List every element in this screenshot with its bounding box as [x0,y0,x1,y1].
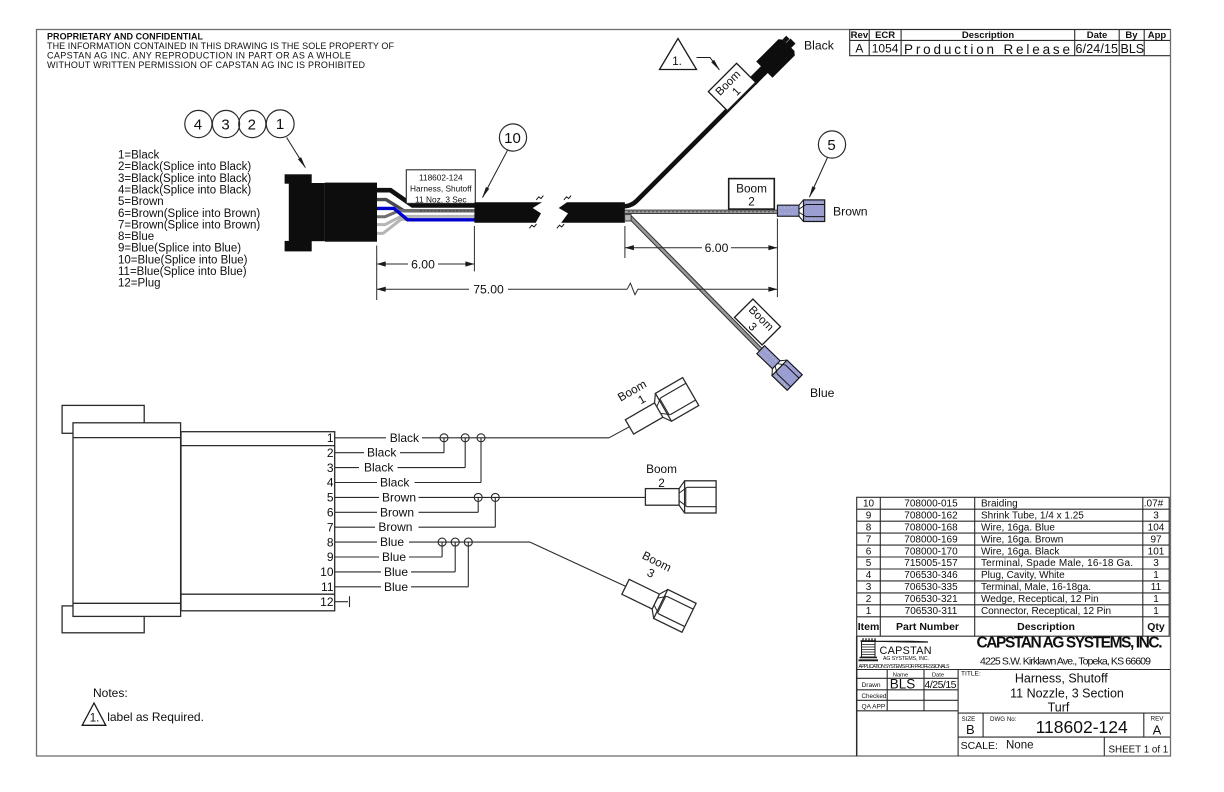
svg-text:By: By [1125,30,1138,41]
svg-text:Rev: Rev [851,30,869,41]
svg-text:1: 1 [276,116,284,133]
svg-text:8: 8 [866,522,872,533]
svg-text:ECR: ECR [875,30,895,41]
svg-text:6.00: 6.00 [411,257,435,271]
svg-text:10: 10 [320,565,334,579]
svg-text:706530-311: 706530-311 [905,606,958,617]
svg-text:6: 6 [866,546,872,557]
svg-text:Brown: Brown [382,490,416,504]
svg-text:Blue: Blue [384,580,408,594]
svg-text:10=Blue(Splice into Blue): 10=Blue(Splice into Blue) [118,254,248,266]
svg-text:1: 1 [866,606,872,617]
svg-text:11=Blue(Splice into Blue): 11=Blue(Splice into Blue) [118,266,247,278]
svg-text:Description: Description [1017,621,1075,633]
svg-text:label as Required.: label as Required. [107,710,204,724]
svg-text:104: 104 [1148,522,1165,533]
svg-text:Qty: Qty [1147,621,1165,633]
svg-text:Blue: Blue [380,535,404,549]
svg-text:B: B [966,722,975,737]
svg-text:Black: Black [364,461,394,475]
svg-text:Turf: Turf [1048,700,1070,714]
svg-text:Wire, 16ga. Blue: Wire, 16ga. Blue [981,522,1055,533]
svg-text:Blue: Blue [384,565,408,579]
svg-text:Black: Black [804,39,835,53]
svg-text:708000-169: 708000-169 [904,534,958,545]
svg-text:8: 8 [327,535,334,549]
svg-text:Harness, Shutoff: Harness, Shutoff [410,184,472,194]
svg-text:5=Brown: 5=Brown [118,196,164,208]
svg-text:1: 1 [327,431,334,445]
svg-text:715005-157: 715005-157 [904,558,958,569]
svg-text:3=Black(Splice into Black): 3=Black(Splice into Black) [118,173,251,185]
svg-text:3: 3 [1153,510,1159,521]
svg-text:706530-335: 706530-335 [904,582,958,593]
svg-text:6/24/15: 6/24/15 [1076,42,1119,56]
svg-text:708000-015: 708000-015 [904,499,958,510]
svg-text:Wire, 16ga. Brown: Wire, 16ga. Brown [981,534,1063,545]
svg-text:4225 S.W. Kirklawn Ave., Topek: 4225 S.W. Kirklawn Ave., Topeka, KS 6660… [980,656,1151,668]
svg-text:7: 7 [866,534,872,545]
svg-text:1.: 1. [90,713,100,725]
svg-text:Part Number: Part Number [896,621,959,633]
svg-text:11: 11 [321,580,334,594]
svg-text:9: 9 [327,550,334,564]
svg-text:11 Noz, 3 Sec: 11 Noz, 3 Sec [415,194,467,204]
svg-text:Harness, Shutoff: Harness, Shutoff [1015,671,1108,685]
svg-text:Date: Date [932,673,944,679]
svg-text:3: 3 [221,116,229,133]
svg-text:A: A [855,42,863,56]
svg-text:5: 5 [827,137,835,154]
svg-text:7: 7 [327,520,334,534]
svg-text:None: None [1006,740,1034,752]
svg-text:4=Black(Splice into Black): 4=Black(Splice into Black) [118,185,251,197]
svg-text:.07#: .07# [1144,499,1164,510]
svg-text:10: 10 [863,499,875,510]
svg-text:4: 4 [327,476,334,490]
svg-text:Blue: Blue [810,386,835,400]
svg-text:1: 1 [635,392,648,407]
svg-text:Brown: Brown [378,520,412,534]
svg-text:AG SYSTEMS, INC.: AG SYSTEMS, INC. [883,656,929,662]
svg-text:DWG No:: DWG No: [990,716,1017,723]
svg-text:CAPSTAN AG SYSTEMS, INC.: CAPSTAN AG SYSTEMS, INC. [977,635,1163,652]
svg-text:Brown: Brown [380,505,414,519]
svg-text:4/25/15: 4/25/15 [925,679,957,691]
svg-text:Production Release: Production Release [904,42,1070,57]
svg-text:11 Nozzle, 3 Section: 11 Nozzle, 3 Section [1010,686,1124,700]
svg-text:708000-168: 708000-168 [904,522,958,533]
svg-text:5: 5 [327,491,334,505]
svg-text:THE INFORMATION CONTAINED IN T: THE INFORMATION CONTAINED IN THIS DRAWIN… [47,41,395,51]
svg-text:1=Black: 1=Black [118,150,159,162]
svg-text:Black: Black [380,476,410,490]
svg-text:1054: 1054 [872,42,899,56]
svg-text:4: 4 [194,116,202,133]
svg-text:2: 2 [327,446,334,460]
svg-text:2: 2 [248,116,256,133]
svg-text:TITLE:: TITLE: [961,671,981,678]
svg-text:Boom: Boom [736,181,767,195]
svg-text:3: 3 [1153,558,1159,569]
svg-text:101: 101 [1148,546,1165,557]
svg-text:97: 97 [1150,534,1162,545]
svg-text:9=Blue(Splice into Blue): 9=Blue(Splice into Blue) [118,243,241,255]
svg-text:1: 1 [1153,570,1159,581]
svg-text:Plug, Cavity, White: Plug, Cavity, White [981,570,1065,581]
svg-text:Connector, Receptical, 12 Pin: Connector, Receptical, 12 Pin [981,606,1111,617]
svg-text:1: 1 [1153,606,1159,617]
svg-text:BLS: BLS [1121,42,1145,56]
svg-text:706530-346: 706530-346 [904,570,958,581]
svg-text:CAPSTAN AG INC. ANY REPRODUCTI: CAPSTAN AG INC. ANY REPRODUCTION IN PART… [47,51,351,61]
svg-text:3: 3 [645,565,658,581]
svg-text:QA APP: QA APP [862,703,886,710]
svg-text:SHEET 1 of 1: SHEET 1 of 1 [1109,744,1169,755]
svg-text:1: 1 [1153,594,1159,605]
svg-text:BLS: BLS [890,677,916,692]
svg-text:Black: Black [367,446,397,460]
svg-text:Braiding: Braiding [981,499,1018,510]
svg-text:3: 3 [327,461,334,475]
svg-text:75.00: 75.00 [473,283,504,297]
svg-text:10: 10 [504,130,521,147]
svg-text:6=Brown(Splice into Brown): 6=Brown(Splice into Brown) [118,208,260,220]
svg-text:Item: Item [858,621,880,633]
svg-text:Wire, 16ga. Black: Wire, 16ga. Black [981,546,1060,557]
svg-text:App: App [1148,30,1167,41]
svg-text:118602-124: 118602-124 [419,172,463,182]
svg-text:708000-162: 708000-162 [904,510,958,521]
svg-text:6.00: 6.00 [705,241,729,255]
svg-text:Terminal, Male, 16-18ga.: Terminal, Male, 16-18ga. [981,582,1091,593]
svg-text:2=Black(Splice into Black): 2=Black(Splice into Black) [118,161,251,173]
svg-text:3: 3 [866,582,872,593]
svg-text:12=Plug: 12=Plug [118,278,161,290]
svg-text:REV: REV [1151,716,1165,723]
svg-text:Boom: Boom [646,462,677,476]
svg-text:PROPRIETARY AND CONFIDENTIAL: PROPRIETARY AND CONFIDENTIAL [47,32,204,42]
svg-text:Date: Date [1087,30,1108,41]
svg-text:APPLICATION SYSTEMS FOR PROFES: APPLICATION SYSTEMS FOR PROFESSIONALS [859,664,951,670]
svg-text:4: 4 [866,570,872,581]
svg-text:8=Blue: 8=Blue [118,231,154,243]
svg-text:Drawn: Drawn [862,682,881,689]
svg-text:7=Brown(Splice into Brown): 7=Brown(Splice into Brown) [118,219,260,231]
svg-text:2: 2 [866,594,872,605]
svg-text:Checked: Checked [862,693,887,700]
svg-text:706530-321: 706530-321 [904,594,958,605]
svg-text:Brown: Brown [833,205,868,219]
svg-text:2: 2 [748,194,755,208]
svg-text:A: A [1153,723,1162,738]
svg-text:5: 5 [866,558,872,569]
svg-text:Wedge, Receptical, 12 Pin: Wedge, Receptical, 12 Pin [981,594,1099,605]
svg-text:Terminal, Spade Male, 16-18 Ga: Terminal, Spade Male, 16-18 Ga. [981,558,1133,569]
svg-text:Description: Description [962,30,1014,41]
svg-text:Notes:: Notes: [93,686,128,700]
svg-text:11: 11 [1151,582,1162,593]
svg-text:Shrink Tube, 1/4 x 1.25: Shrink Tube, 1/4 x 1.25 [981,510,1084,521]
svg-text:SCALE:: SCALE: [961,740,998,752]
svg-text:Boom: Boom [640,548,674,575]
svg-text:Blue: Blue [382,550,406,564]
svg-text:708000-170: 708000-170 [904,546,958,557]
svg-text:1.: 1. [672,56,682,68]
svg-text:9: 9 [866,510,872,521]
svg-text:6: 6 [327,506,334,520]
svg-text:118602-124: 118602-124 [1036,717,1128,737]
svg-text:WITHOUT WRITTEN PERMISSION OF: WITHOUT WRITTEN PERMISSION OF CAPSTAN AG… [47,60,366,70]
svg-text:12: 12 [320,595,334,609]
svg-text:Black: Black [390,431,420,445]
svg-text:2: 2 [658,476,665,490]
